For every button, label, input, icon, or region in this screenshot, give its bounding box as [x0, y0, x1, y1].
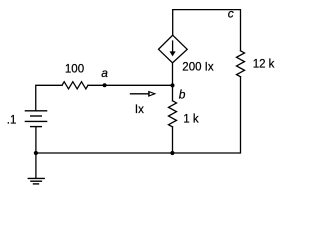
svg-text:Ix: Ix	[135, 104, 144, 116]
svg-text:c: c	[228, 6, 234, 20]
svg-text:a: a	[101, 66, 108, 80]
svg-text:.1: .1	[7, 114, 17, 126]
svg-text:100: 100	[65, 64, 84, 76]
svg-text:1 k: 1 k	[183, 113, 199, 125]
svg-text:12 k: 12 k	[253, 59, 275, 71]
svg-text:b: b	[179, 87, 186, 101]
svg-text:200 Ix: 200 Ix	[182, 62, 214, 74]
